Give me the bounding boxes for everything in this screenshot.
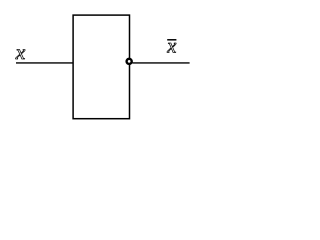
svg-text:x: x xyxy=(166,36,176,58)
svg-text:x: x xyxy=(15,40,26,64)
